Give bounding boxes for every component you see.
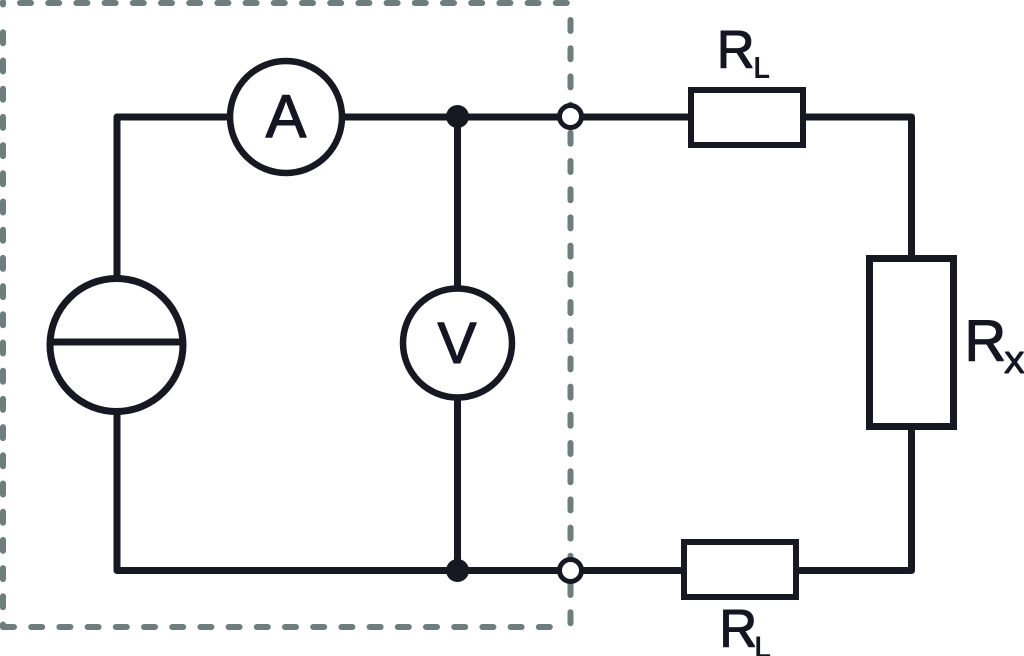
svg-text:R: R <box>717 21 755 80</box>
svg-text:X: X <box>1004 345 1024 380</box>
svg-text:V: V <box>437 311 476 376</box>
svg-text:A: A <box>266 83 307 151</box>
svg-text:L: L <box>754 53 770 85</box>
svg-text:R: R <box>719 600 757 656</box>
svg-text:L: L <box>755 632 771 656</box>
svg-text:R: R <box>964 309 1006 374</box>
